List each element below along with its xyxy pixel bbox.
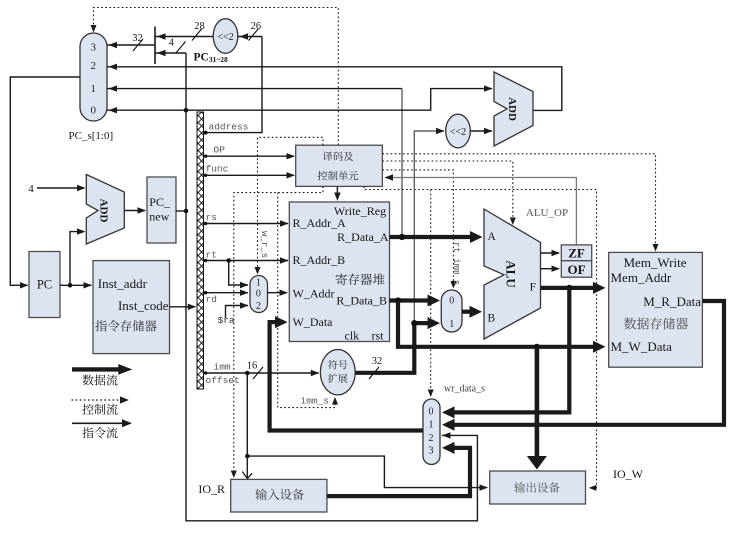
wire const 4 into ADD1 [37, 187, 84, 189]
svg-text:address: address [209, 122, 249, 133]
svg-text:Inst_code: Inst_code [118, 298, 169, 313]
wire rd to W_Addr mux input0 [204, 292, 249, 294]
svg-text:offset: offset [206, 375, 240, 386]
svg-text:Mem_Addr: Mem_Addr [611, 270, 672, 285]
wire wr_data mux to W_Data [270, 322, 423, 430]
svg-text:OF: OF [567, 262, 585, 277]
wire rt to R_Addr_B [204, 260, 289, 262]
svg-text:clk: clk [345, 329, 360, 343]
wire imm32 to B mux input1 [414, 321, 436, 325]
legend control flow [72, 399, 122, 401]
register PC_new [147, 177, 176, 243]
svg-text:A: A [488, 231, 497, 243]
svg-text:B: B [488, 313, 496, 325]
svg-text:4: 4 [28, 183, 34, 195]
wire W_Addr mux to regfile [268, 292, 288, 294]
wire 26-bit into shifter1 [238, 36, 262, 38]
legend data flow [72, 367, 120, 371]
mux W_Addr select [250, 276, 268, 313]
svg-text:3: 3 [91, 42, 97, 54]
svg-text:2: 2 [429, 433, 434, 444]
svg-text:IO_R: IO_R [198, 482, 225, 496]
wire input device to wr_data mux input3 [327, 448, 470, 496]
svg-text:32: 32 [372, 356, 383, 367]
wire ALU to OF [541, 268, 560, 270]
wire 4-bit PC_new high [155, 52, 186, 54]
svg-text:ZF: ZF [568, 246, 585, 261]
wire rt branch to W_Addr mux input1 [229, 261, 248, 286]
svg-text:ADD: ADD [506, 97, 518, 121]
register OF [561, 261, 591, 278]
legend instruction flow [72, 422, 123, 424]
svg-text:R_Data_A: R_Data_A [337, 230, 389, 244]
svg-text:0: 0 [429, 407, 434, 418]
svg-text:F: F [530, 282, 536, 294]
svg-text:w_r_s: w_r_s [259, 231, 269, 258]
svg-text:rt imm s: rt imm s [451, 242, 461, 285]
wire M_W_Data [398, 301, 600, 347]
wire PC_s input2 from ADD2 result [107, 67, 562, 111]
device output [490, 471, 586, 504]
svg-text:0: 0 [256, 289, 261, 300]
svg-text:26: 26 [251, 21, 262, 32]
memory data store [609, 252, 703, 367]
wire M_W_Data branch to output device [535, 347, 540, 457]
wire shifter2 to ADD2 [470, 130, 492, 132]
control w_r_s to W_Addr mux [258, 137, 323, 271]
svg-text:rt: rt [206, 250, 217, 261]
svg-text:ALU_OP: ALU_OP [526, 207, 568, 219]
svg-text:1: 1 [256, 278, 261, 289]
wire address to shifter1 [204, 37, 263, 133]
wire imm32 sign extended [355, 323, 414, 373]
svg-text:Inst_addr: Inst_addr [98, 276, 148, 291]
svg-text:new: new [149, 210, 169, 224]
memory instruction store [93, 261, 170, 354]
svg-text:ALU: ALU [504, 260, 519, 288]
svg-text:28: 28 [194, 21, 205, 32]
register PC [29, 252, 60, 318]
control IO_R and imm_s [234, 186, 323, 474]
svg-text:$ra: $ra [218, 315, 235, 326]
mux ALU B select [441, 290, 462, 332]
wire M_R_Data to wr_data mux input1 [446, 301, 724, 425]
adder ADD2 [494, 72, 533, 146]
svg-text:imm_s: imm_s [301, 396, 330, 407]
svg-text:wr_data_s: wr_data_s [444, 384, 485, 395]
wire imm to shifter2 [414, 131, 444, 321]
svg-text:IO_W: IO_W [613, 467, 644, 481]
wire PC_s input0 PC_new / ADD2 operand [107, 89, 492, 111]
wire func to decoder [204, 174, 295, 176]
svg-text:1: 1 [429, 419, 434, 430]
svg-text:OP: OP [214, 145, 226, 156]
wire imm16 to sign extend [204, 372, 319, 374]
svg-text:ADD: ADD [98, 199, 110, 223]
instruction register bar [197, 112, 204, 389]
wire decoder to regfile Write_Reg [336, 186, 338, 198]
wire R_Data_B to B mux input0 [389, 298, 436, 302]
wire PC_s input3 32-bit [107, 44, 155, 46]
svg-text:R_Data_B: R_Data_B [336, 294, 387, 308]
svg-text:0: 0 [449, 296, 454, 307]
svg-text:func: func [206, 164, 229, 175]
junction PC_new column [184, 108, 189, 113]
svg-text:W_Addr: W_Addr [293, 287, 335, 301]
control Mem_Write [382, 154, 655, 248]
control wire PC_s select (decode to PC_s mux) [94, 8, 339, 146]
shifter <<2 jump [213, 19, 238, 54]
wire PC_new loop to wr_data mux input2 [186, 53, 477, 521]
register ZF [561, 245, 591, 261]
wire offset branch to IO [247, 373, 487, 488]
control ALU_OP [382, 161, 512, 222]
svg-text:2: 2 [91, 60, 97, 72]
svg-text:4: 4 [169, 38, 175, 49]
shifter <<2 branch [446, 114, 471, 148]
svg-text:R_Addr_B: R_Addr_B [293, 253, 346, 267]
register file [289, 202, 389, 342]
svg-text:16: 16 [247, 361, 258, 372]
wire B mux to ALU B [462, 310, 477, 314]
ALU [484, 209, 541, 339]
wire ALU to ZF [541, 252, 560, 254]
control rt_imm_s to ALU B mux [382, 170, 453, 285]
wire PC_s input1 jr R_Data_A [107, 88, 402, 90]
control wr_data_s and IO_W [364, 186, 597, 488]
svg-text:1: 1 [449, 319, 454, 330]
mux PC_s [80, 33, 107, 121]
adder ADD1 [86, 175, 124, 245]
control feedback ZF OF to decoder [385, 178, 576, 245]
mux wr_data_s [423, 399, 440, 465]
wire OP to decoder [204, 155, 295, 157]
svg-text:rs: rs [206, 212, 217, 223]
wire 28-bit from shifter1 [155, 36, 213, 38]
wire ALU F to Mem_Addr [541, 286, 601, 290]
svg-text:<<2: <<2 [450, 127, 466, 138]
svg-text:imm: imm [214, 362, 231, 373]
wire PC_s output to PC [10, 77, 80, 285]
wire PC to Inst_addr [60, 284, 92, 286]
wire into input device top [246, 456, 248, 478]
svg-text:<<2: <<2 [217, 32, 233, 43]
wire rs to R_Addr_A [204, 223, 289, 225]
wire PC into ADD1 [70, 232, 84, 286]
svg-text:PC: PC [37, 278, 52, 292]
joiner node [154, 27, 156, 65]
wire Inst_code to IR [170, 306, 195, 308]
svg-text:3: 3 [429, 446, 434, 457]
device input [231, 479, 327, 512]
svg-text:PC_s[1:0]: PC_s[1:0] [69, 130, 114, 142]
svg-text:M_R_Data: M_R_Data [643, 294, 701, 309]
svg-text:rst: rst [372, 329, 385, 343]
decoder control unit [296, 145, 383, 186]
sign extender [320, 350, 355, 395]
svg-text:32: 32 [132, 33, 143, 44]
wire PC_new output [176, 210, 186, 212]
svg-text:W_Data: W_Data [293, 315, 334, 329]
svg-text:M_W_Data: M_W_Data [611, 339, 673, 354]
wire $ra to W_Addr mux input2 [226, 306, 249, 319]
wire R_Data_A to ALU A thick [390, 235, 479, 239]
wire F to wr_data mux input0 [446, 288, 569, 413]
svg-text:PC_: PC_ [149, 195, 171, 209]
svg-text:2: 2 [256, 301, 261, 312]
svg-text:R_Addr_A: R_Addr_A [293, 216, 347, 230]
svg-text:rd: rd [206, 294, 217, 305]
svg-text:0: 0 [91, 105, 97, 117]
wire ADD1 to PC_new [124, 210, 145, 212]
svg-text:Mem_Write: Mem_Write [623, 255, 686, 270]
svg-text:1: 1 [91, 83, 97, 95]
